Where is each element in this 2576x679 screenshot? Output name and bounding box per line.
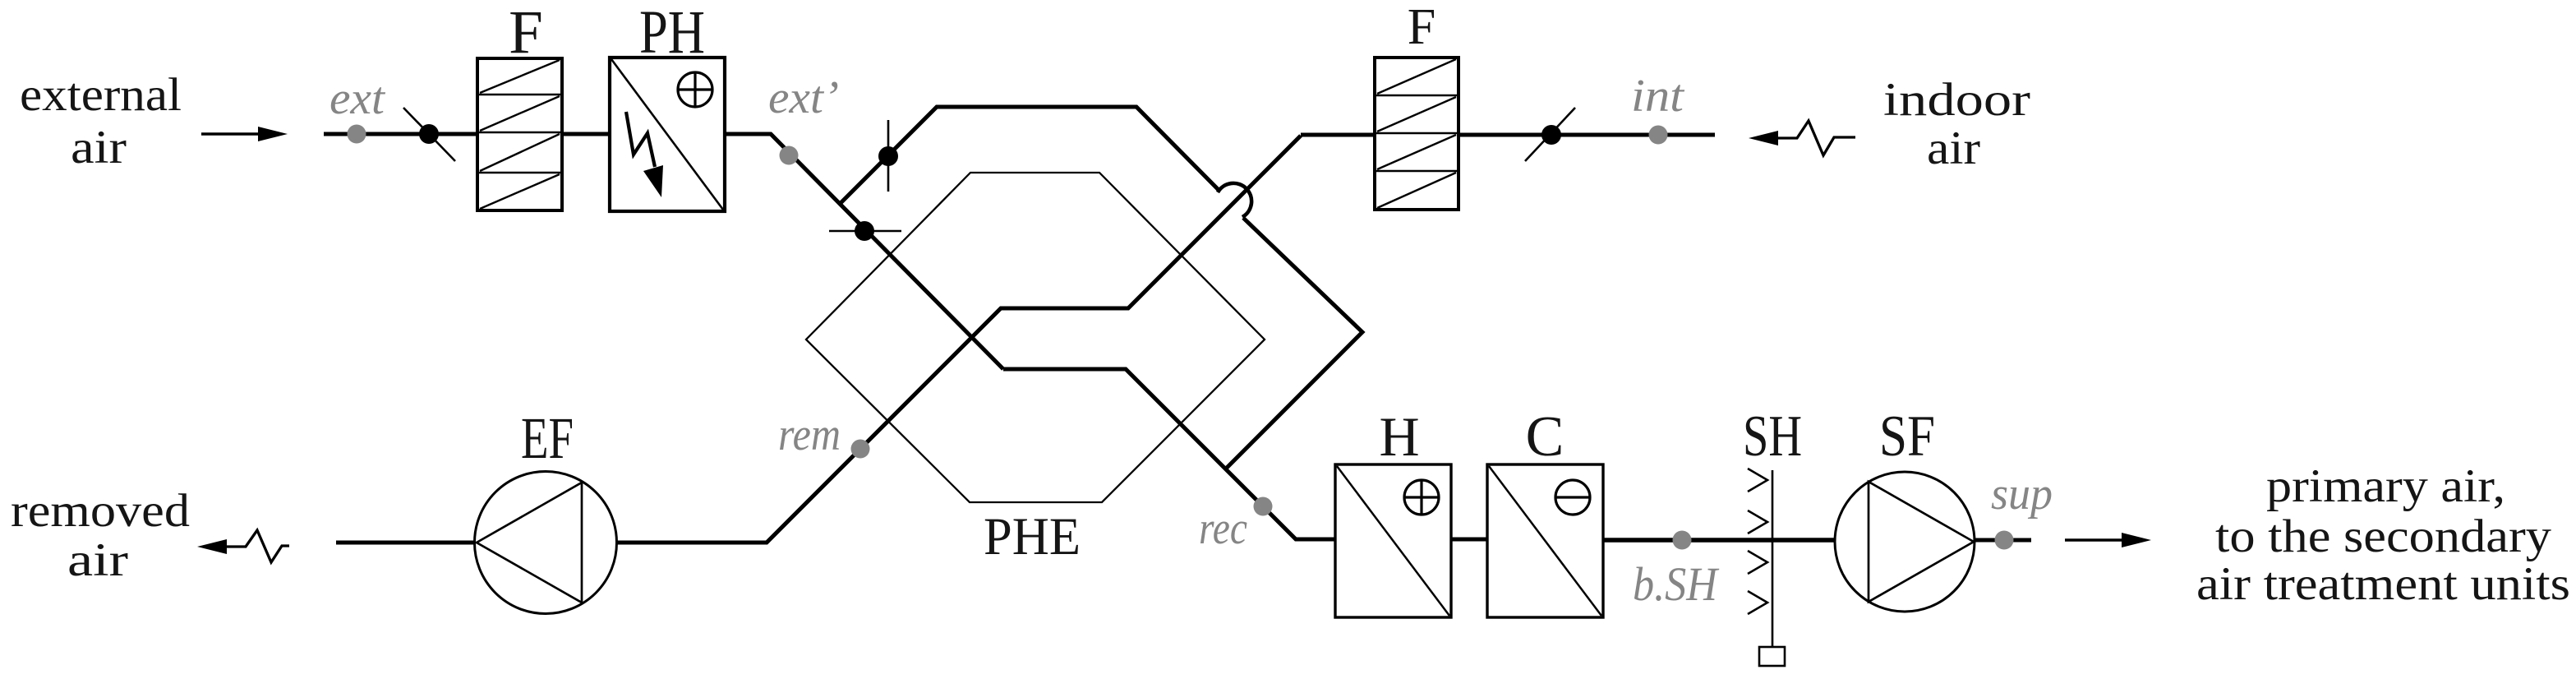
svg-text:air treatment units: air treatment units	[2196, 558, 2570, 610]
svg-text:sup: sup	[1991, 469, 2053, 520]
fan EF (exhaust fan)	[475, 472, 617, 614]
fan SF (supply fan)	[1835, 472, 1975, 612]
svg-text:primary air,: primary air,	[2266, 460, 2505, 512]
wire return path through PHE (int to rem)	[616, 136, 1301, 543]
svg-text:rem: rem	[778, 409, 841, 460]
node dot rec	[1254, 497, 1273, 516]
svg-text:int: int	[1631, 71, 1685, 122]
node dot ext'	[780, 146, 799, 165]
label removed air	[11, 485, 190, 586]
wire crossover arc on bypass over return line	[1218, 183, 1251, 217]
wire SF outlet	[1975, 538, 2031, 543]
cooler C	[1487, 464, 1603, 617]
label external air	[20, 69, 182, 173]
wire PHE bypass branch after crossover	[1224, 218, 1362, 470]
filter F (indoor)	[1375, 58, 1459, 210]
pre-heater PH	[610, 58, 725, 211]
svg-text:indoor: indoor	[1883, 74, 2030, 126]
svg-text:F: F	[509, 0, 543, 67]
wire PH to ext' corner	[725, 134, 1003, 369]
svg-text:SF: SF	[1879, 404, 1935, 469]
wire ext to filter F	[324, 132, 477, 136]
node dot int	[1649, 126, 1668, 145]
svg-text:external: external	[20, 69, 182, 121]
wire int to filter F	[1459, 133, 1715, 137]
wire supply path through PHE (ext' to rec)	[1003, 369, 1335, 539]
svg-text:EF: EF	[521, 405, 574, 471]
node dot rem	[851, 440, 870, 459]
svg-text:air: air	[67, 534, 128, 586]
svg-text:ext: ext	[329, 73, 385, 124]
node dot b.SH	[1673, 531, 1692, 550]
svg-text:F: F	[1408, 0, 1435, 55]
wire PHE bypass branch	[839, 107, 1219, 205]
svg-text:removed: removed	[11, 485, 190, 537]
svg-text:SH: SH	[1743, 404, 1802, 469]
damper on int line	[1525, 108, 1575, 161]
svg-text:air: air	[71, 122, 127, 173]
svg-text:b.SH: b.SH	[1633, 557, 1720, 611]
wire H to C	[1451, 538, 1487, 542]
wire C to SF	[1603, 538, 1835, 543]
label primary air destination	[2196, 460, 2570, 610]
filter F (external)	[477, 58, 562, 210]
arrow removed-air outlet with break	[197, 530, 289, 562]
humidifier SH	[1748, 469, 1785, 666]
damper on ext line	[403, 108, 455, 161]
svg-text:ext’: ext’	[768, 72, 839, 123]
svg-text:rec: rec	[1199, 503, 1247, 554]
damper on PHE inlet line	[829, 221, 901, 241]
svg-text:C: C	[1526, 405, 1564, 469]
heater H	[1335, 464, 1451, 617]
wire EF outlet	[336, 541, 474, 545]
wire filter F to return corner	[1301, 133, 1375, 137]
arrow external-air inlet	[201, 127, 288, 141]
svg-text:H: H	[1379, 405, 1419, 468]
wire F to PH	[562, 132, 610, 136]
node dot sup	[1995, 531, 2014, 550]
heat exchanger PHE thin loop	[806, 173, 1265, 502]
arrow supply outlet	[2065, 533, 2151, 547]
svg-text:air: air	[1927, 122, 1980, 174]
svg-text:PHE: PHE	[984, 507, 1081, 566]
arrow indoor-air inlet with break	[1749, 121, 1855, 155]
damper on bypass branch	[878, 120, 898, 192]
node dot ext	[348, 125, 366, 144]
svg-text:to the secondary: to the secondary	[2215, 510, 2552, 562]
label indoor air	[1883, 74, 2030, 174]
